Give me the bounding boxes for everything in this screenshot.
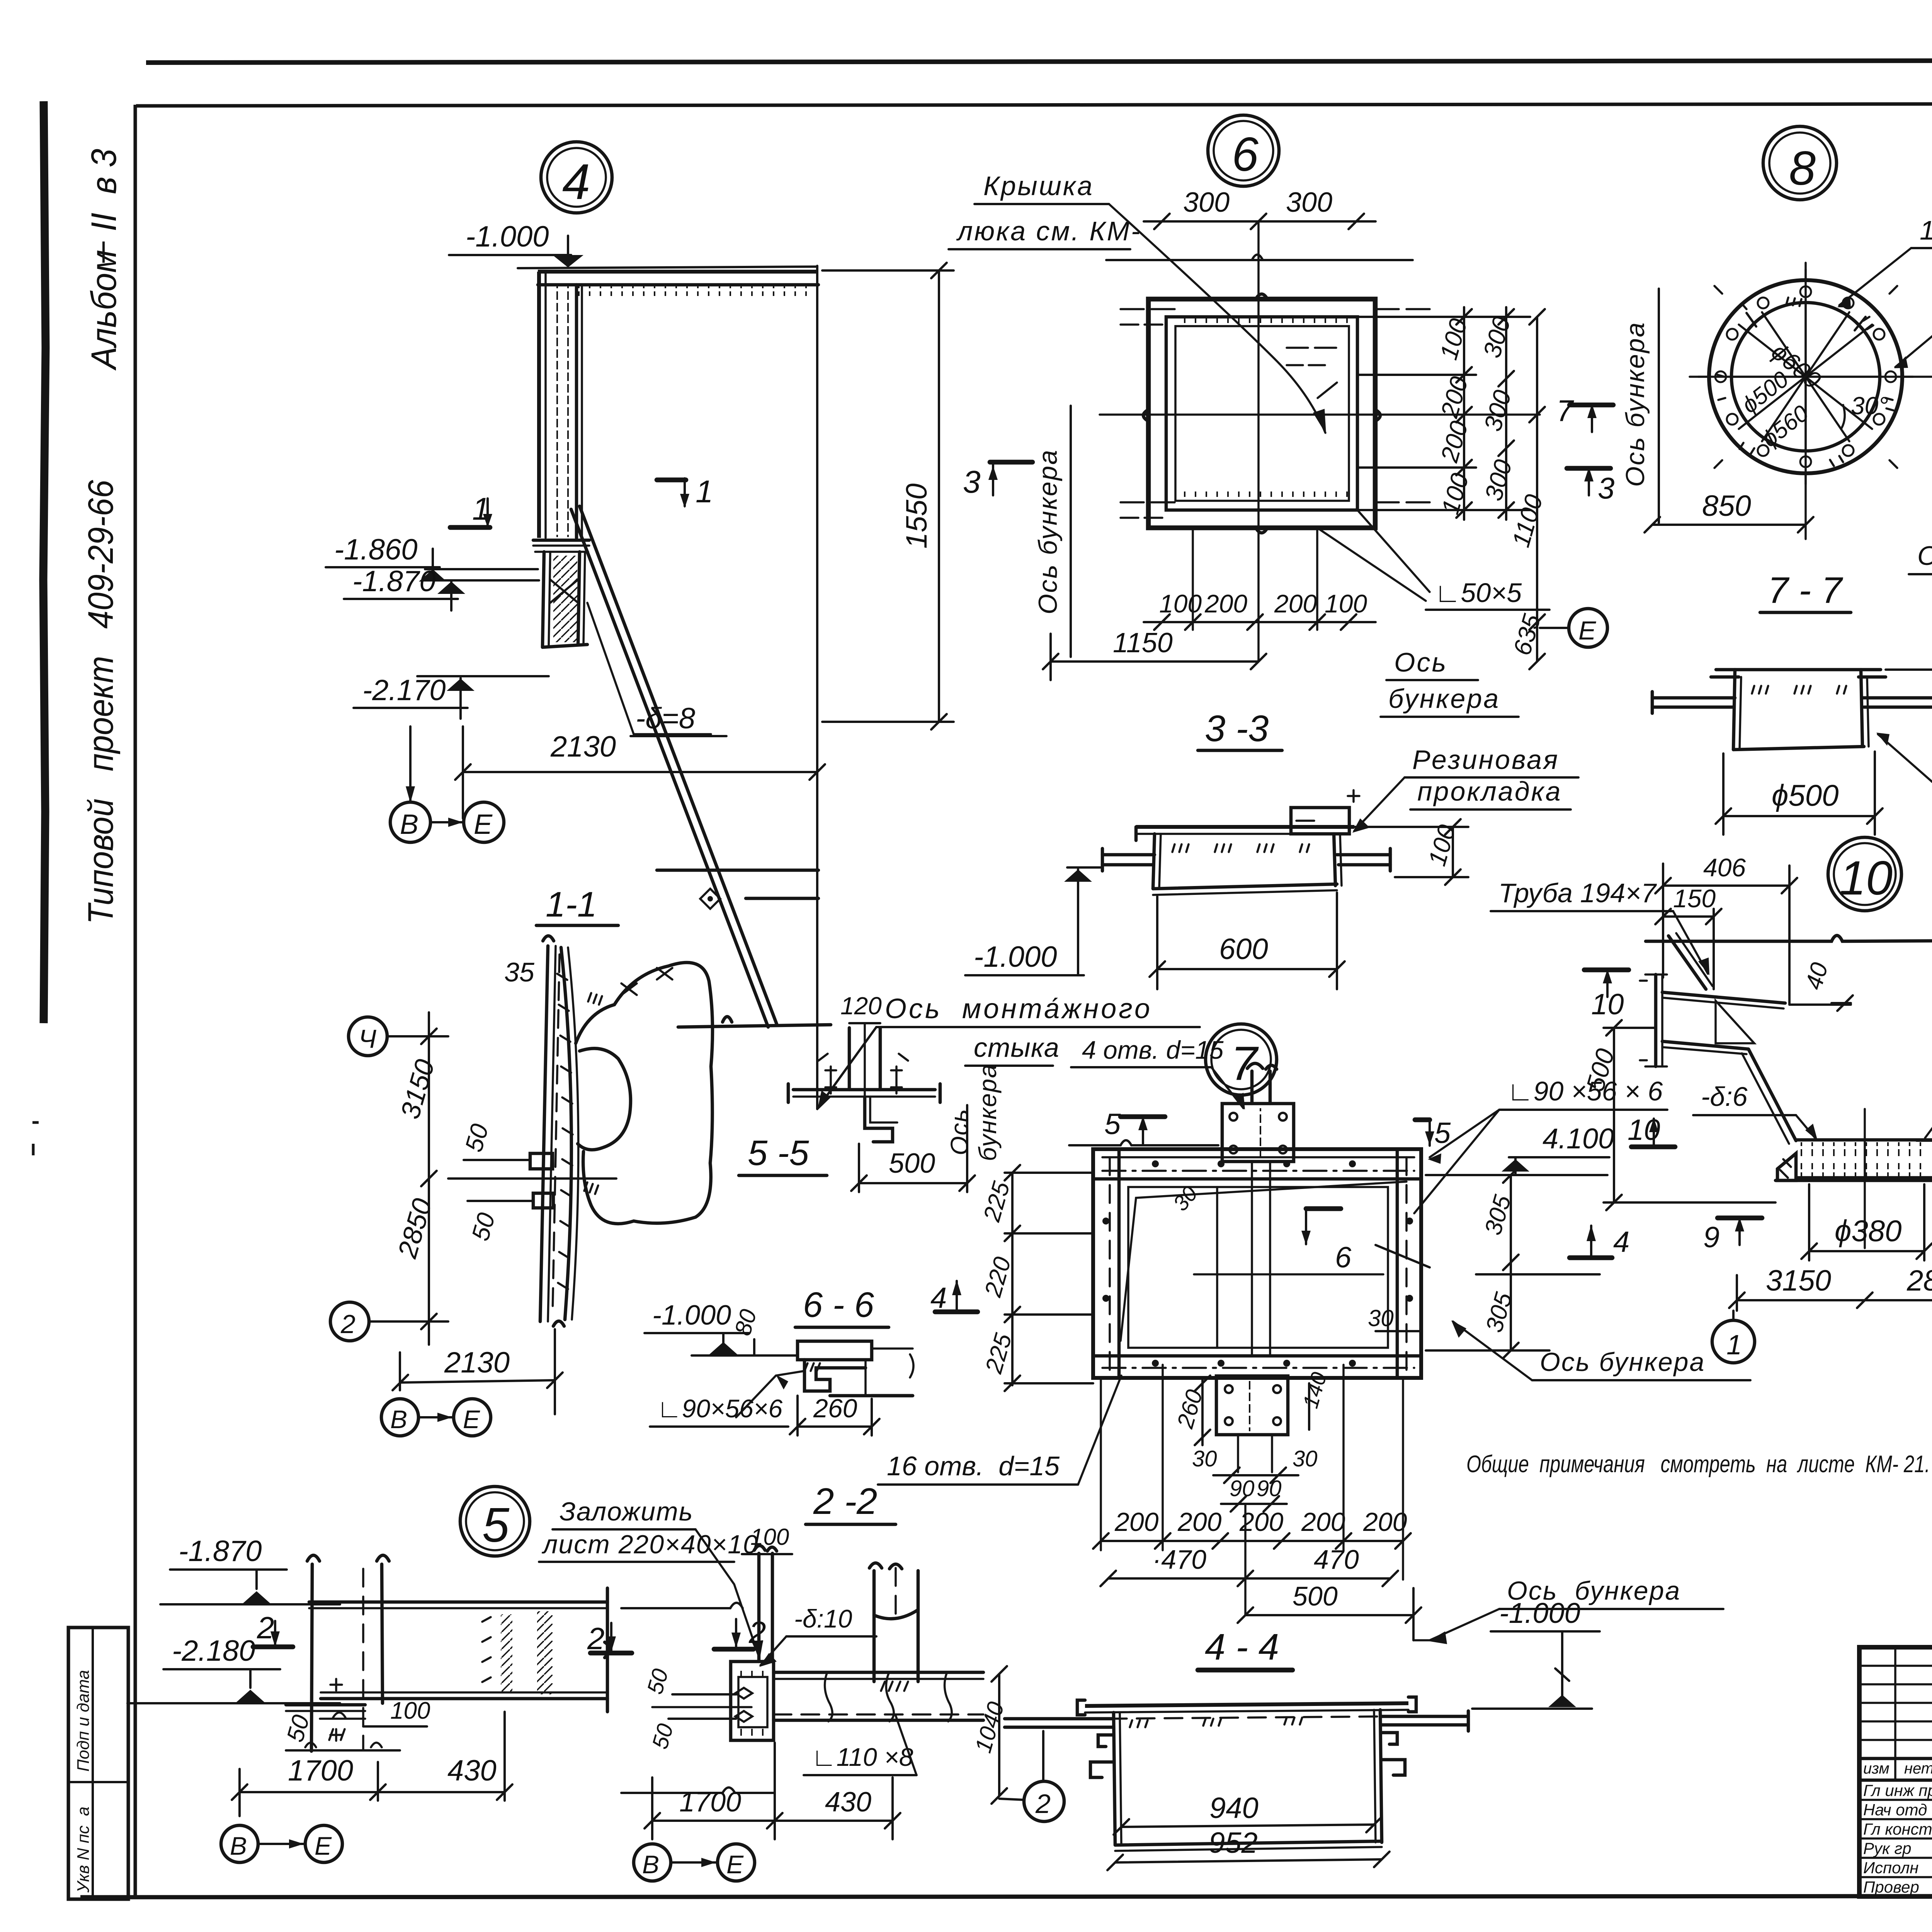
svg-text:2: 2 [257,1611,274,1645]
svg-text:·470: ·470 [1152,1544,1206,1575]
body walls [1114,1713,1115,1845]
svg-text:30: 30 [1368,1305,1394,1331]
svg-text:люка см. КМ-: люка см. КМ- [956,216,1141,246]
svg-text:9: 9 [1703,1221,1719,1254]
bolt dots [1102,1160,1413,1367]
svg-text:бункера: бункера [1388,684,1500,714]
dashed hidden lines outside [1121,309,1175,325]
svg-text:5: 5 [1104,1108,1121,1141]
svg-text:Ось бункера: Ось бункера [1033,449,1063,614]
svg-text:300: 300 [1286,187,1332,218]
column dividers [1894,1647,1896,1780]
svg-text:16 отв. d=15: 16 отв. d=15 [887,1451,1060,1481]
dim 80 [753,1339,755,1355]
svg-text:Исполн: Исполн [1863,1859,1918,1877]
svg-text:2850: 2850 [1906,1264,1932,1297]
section 3 mark right [1567,466,1611,471]
svg-text:5: 5 [482,1498,510,1552]
outer frame rectangle [1093,1149,1421,1378]
cross assembly [793,1088,935,1092]
svg-text:-δ=8: -δ=8 [636,702,695,735]
svg-text:2130: 2130 [550,730,616,763]
svg-text:30°: 30° [1851,392,1888,420]
top channel band [1093,1177,1421,1181]
svg-text:2130: 2130 [444,1346,510,1379]
svg-text:2: 2 [587,1621,605,1656]
svg-text:∟110 ×8: ∟110 ×8 [811,1743,913,1771]
hatch in wall band [557,974,573,1289]
svg-text:4 - 4: 4 - 4 [1205,1626,1279,1668]
vertical dim chain 3150/2850 [428,1012,430,1345]
node circle 10 [1828,837,1901,911]
extension to bubble [1042,1731,1044,1781]
bottom grid bubbles [221,1825,258,1862]
svg-text:Е: Е [1578,616,1596,645]
svg-text:ɸ500: ɸ500 [1772,778,1839,812]
svg-text:100: 100 [1325,589,1367,618]
dims 50 50 [464,1159,530,1161]
svg-text:Ось бункера: Ось бункера [1621,321,1650,487]
svg-text:6: 6 [1335,1241,1352,1274]
svg-text:Е: Е [474,809,493,840]
inner rect [1128,1187,1388,1348]
svg-text:-1.000: -1.000 [1499,1597,1580,1629]
weld ticks [1752,686,1846,694]
svg-text:-1.000: -1.000 [652,1300,731,1331]
svg-text:Укв N пс а: Укв N пс а [74,1806,93,1893]
top roof beam [538,270,818,274]
column base plates [286,1703,365,1707]
bolts left right [825,1066,902,1094]
svg-text:Е: Е [463,1405,480,1434]
weld tick rows inside [1172,844,1309,852]
svg-text:5 -5: 5 -5 [748,1133,809,1173]
brace label leader [587,603,711,734]
svg-text:Труба 194×7: Труба 194×7 [1498,878,1657,908]
right pipe [1862,696,1932,700]
axis vertical [1658,289,1660,523]
x marks [621,968,672,995]
curved wall band [540,946,548,1321]
top plate with pipe [1222,1104,1294,1162]
grid bubble B [390,802,430,842]
top border line upper [146,60,1932,63]
svg-text:406: 406 [1703,853,1746,882]
dashed midline [1109,1716,1387,1719]
svg-text:Ось: Ось [1394,647,1447,677]
edge notches [1143,294,1380,533]
svg-text:∟90×56×6: ∟90×56×6 [657,1394,783,1423]
top flange [1085,1703,1408,1706]
svg-text:200: 200 [1204,589,1247,618]
svg-text:ɸ380: ɸ380 [1835,1214,1902,1248]
bottom frame border [80,1896,1932,1897]
svg-text:3: 3 [963,464,981,500]
svg-text:Ось бункера: Ось бункера [1917,541,1932,571]
svg-text:200: 200 [1301,1507,1345,1537]
section 5 marks top [1121,1114,1165,1119]
horizontal line through 6 [1194,1273,1383,1276]
tank top flange [1716,668,1881,672]
left paper edge mark [43,101,46,1023]
big diagonal [1121,1182,1406,1341]
svg-text:В: В [400,809,418,840]
svg-text:изм: изм [1863,1760,1889,1777]
svg-text:Е: Е [315,1832,332,1860]
splice plates [533,539,589,542]
svg-text:150: 150 [1673,884,1716,913]
svg-text:600: 600 [1219,933,1268,966]
svg-text:200: 200 [1363,1507,1407,1537]
chute pipe diagonal [1668,936,1706,989]
spokes [1730,301,1881,452]
inner square [1166,317,1357,510]
svg-text:6: 6 [1232,128,1259,181]
svg-text:3150: 3150 [1766,1264,1831,1297]
svg-text:260: 260 [813,1394,857,1423]
long extension line [1106,259,1413,261]
second column [872,1571,876,1682]
channel below [865,1097,893,1142]
svg-text:-1.870: -1.870 [179,1535,262,1568]
outer plan square [1148,299,1375,528]
svg-text:8: 8 [1789,142,1816,195]
left pipe [1652,696,1735,700]
node circle 8 [1763,126,1837,200]
svg-text:Заложить: Заложить [560,1497,693,1526]
centerlines [1257,222,1260,662]
hatch ticks along inner frame [1175,317,1349,326]
svg-text:1-1: 1-1 [546,885,597,924]
bottom channel band [1093,1354,1421,1358]
stamp outline [1859,1647,1932,1896]
svg-text:100: 100 [750,1524,789,1550]
chute top lines [1662,992,1785,1003]
svg-text:Нач отд: Нач отд [1863,1801,1927,1819]
B E bubbles [634,1844,671,1881]
svg-text:Гл инж пр: Гл инж пр [1863,1781,1932,1799]
right dims 305/305 [1510,1175,1512,1350]
bottom plate with pipe [1216,1376,1288,1435]
svg-text:500: 500 [1293,1581,1338,1611]
small weld ticks ring [1718,298,1893,466]
svg-text:470: 470 [1314,1544,1359,1575]
svg-text:2: 2 [340,1310,355,1339]
top border line lower [136,103,1932,106]
svg-text:1550: 1550 [900,483,933,549]
beam right [774,1671,983,1674]
svg-text:200: 200 [1177,1507,1222,1537]
dim 100 right [1452,827,1454,877]
section 10 marks [1584,968,1629,973]
diameter arrow ticks [1747,313,1866,330]
node circle 6 [1208,115,1279,186]
wall lower portion [543,552,544,647]
svg-text:100: 100 [390,1697,430,1724]
channels at sides [1090,1735,1114,1777]
svg-text:Гл конст: Гл конст [1863,1820,1932,1838]
throat neck hatched band [1796,1138,1932,1142]
dim line under 2130 to B bubble [409,726,412,802]
svg-text:12 отв. d=12: 12 отв. d=12 [1920,215,1932,245]
channel section [798,1341,872,1360]
beam right [309,1600,607,1604]
svg-text:430: 430 [825,1787,871,1818]
dims 50 50 rotated [672,1693,736,1696]
svg-text:лист 220×40×10: лист 220×40×10 [541,1530,759,1559]
small splice plates mid [530,1153,553,1169]
svg-text:6 - 6: 6 - 6 [803,1285,874,1325]
right pipe [1382,1715,1468,1718]
svg-text:7 - 7: 7 - 7 [1768,570,1844,611]
left frame border [134,105,137,1897]
right dim chain 1 [1463,307,1465,520]
svg-text:5: 5 [1434,1117,1451,1150]
svg-text:30: 30 [1192,1446,1217,1471]
column shaft [311,1564,312,1751]
svg-text:нет: нет [1904,1760,1932,1777]
left slope to throat [1748,1049,1796,1141]
diagonal brace [571,509,768,1027]
hatched gusset [1716,1001,1754,1043]
svg-text:-1.000: -1.000 [466,220,549,253]
svg-text:2 -2: 2 -2 [813,1481,877,1522]
svg-text:1700: 1700 [679,1787,741,1818]
svg-text:∟50×5: ∟50×5 [1434,578,1522,608]
svg-text:1700: 1700 [288,1754,353,1787]
svg-text:2: 2 [1035,1789,1051,1819]
section 7 mark right [1570,403,1613,408]
right dim 1100 [1536,317,1538,662]
node circle 5 [460,1486,530,1556]
svg-text:4: 4 [562,153,590,210]
grid bubble E [464,802,504,842]
svg-text:В: В [230,1832,247,1860]
svg-text:-δ:6: -δ:6 [1701,1082,1748,1112]
tank body [1733,670,1735,750]
svg-text:Крышка: Крышка [983,171,1094,201]
svg-text:3: 3 [1598,471,1614,505]
E bubble right [1569,609,1607,647]
centerline [1864,1109,1866,1248]
flared feet [1777,1153,1796,1180]
svg-text:952: 952 [1209,1827,1258,1859]
column base plate region [731,1662,774,1740]
svg-text:200: 200 [1274,589,1317,618]
svg-text:35: 35 [504,957,535,987]
tank top flange [1136,825,1354,829]
node circle 4 [541,142,612,213]
svg-text:Ось бункера: Ось бункера [1540,1347,1705,1377]
svg-text:300: 300 [1183,187,1230,218]
svg-text:4.100: 4.100 [1543,1122,1614,1155]
svg-text:4 отв. d=15: 4 отв. d=15 [1082,1036,1224,1064]
svg-text:-2.180: -2.180 [172,1634,255,1667]
svg-text:200: 200 [1114,1507,1159,1537]
flange outer circle [1709,280,1902,473]
names rows [1859,1799,1932,1801]
chute bottom [1662,1041,1748,1049]
left pipe [1005,1717,1114,1721]
wavy cut lines [621,1603,743,1608]
svg-text:-δ:10: -δ:10 [794,1604,852,1633]
centerlines [1804,263,1807,539]
svg-text:940: 940 [1209,1792,1259,1825]
section 6 marks [1305,1209,1307,1244]
svg-text:Ось монта́жного: Ось монта́жного [885,993,1152,1024]
svg-text:Ось: Ось [946,1109,973,1155]
svg-text:стыка: стыка [974,1032,1060,1063]
svg-text:Е: Е [726,1850,744,1879]
svg-text:500: 500 [889,1148,935,1179]
svg-text:бункера: бункера [974,1063,1002,1161]
lower platform lines [657,869,818,872]
bolt diamond [700,889,720,909]
grid bubbles 1 2 [1712,1320,1755,1363]
svg-text:В: В [642,1850,659,1879]
leader diagonal [1109,204,1325,433]
left/right bands [1117,1149,1121,1378]
bolt holes [1715,286,1896,467]
svg-text:10: 10 [1591,988,1624,1021]
svg-text:Общие примечания смотреть: Общие примечания смотреть на листе КМ- 2… [1466,1451,1930,1478]
svg-text:850: 850 [1702,490,1751,522]
svg-text:100: 100 [1159,589,1202,618]
svg-text:120: 120 [840,992,882,1020]
svg-text:Провер: Провер [1863,1878,1919,1896]
centerline of splice [816,266,818,1109]
svg-text:∟90 ×56 × 6: ∟90 ×56 × 6 [1507,1076,1663,1106]
wall upper portion [537,272,541,538]
svg-text:30: 30 [1293,1446,1318,1471]
flange inner circle [1731,303,1880,451]
tank body [1153,834,1155,889]
channel hatch detail inside beam [501,1614,512,1692]
dashed centerline [553,954,560,1314]
svg-text:10: 10 [1839,852,1893,905]
left dim chain 225/220/225 [1011,1173,1014,1385]
right dim chain 2 [1505,307,1507,520]
svg-text:430: 430 [447,1754,497,1787]
left pipe [1102,853,1155,857]
dim 1550 vertical [938,270,940,722]
svg-text:Типовой проект 409-29-66: Типовой проект 409-29-66 [81,480,121,924]
dim 500 left [1613,1028,1615,1202]
svg-text:-1.000: -1.000 [974,940,1057,973]
center pipe verticals [1251,1162,1253,1356]
bolt circle ticks [1698,269,1913,484]
svg-text:прокладка: прокладка [1417,776,1562,806]
svg-text:90: 90 [1230,1476,1255,1501]
bottom line [1776,1179,1932,1182]
svg-text:Резиновая: Резиновая [1412,745,1559,775]
vertical member above [757,1553,761,1662]
svg-text:-1.870: -1.870 [352,565,436,598]
svg-text:-2.170: -2.170 [362,674,446,707]
node circle 7 [1206,1024,1277,1095]
weld ticks [588,993,602,1005]
cross ties on lower wall [550,580,578,603]
svg-text:Ч: Ч [359,1024,376,1054]
top line with break [1646,935,1932,941]
left grid bubbles [349,1017,387,1056]
2 bubble [1024,1781,1064,1821]
bottom grid bubbles B E [381,1399,418,1436]
weld ticks under flange [1130,1718,1302,1727]
cloud blob right [576,963,713,1224]
svg-text:3 -3: 3 -3 [1205,708,1269,749]
svg-text:7: 7 [1556,394,1574,428]
svg-text:Рук гр: Рук гр [1863,1839,1912,1857]
right pipe [1337,853,1390,857]
svg-text:1: 1 [1726,1330,1742,1361]
section 9 marks [1718,1216,1762,1221]
svg-text:4: 4 [1613,1226,1629,1259]
gasket raised box [1291,808,1349,834]
arrow between bubbles [430,821,464,823]
10 40 dims [998,1674,1000,1796]
svg-text:1: 1 [696,474,713,509]
GOST left column boxes [68,1628,128,1899]
vertical pipe above [848,1028,851,1090]
svg-text:Подп и дата: Подп и дата [74,1670,93,1772]
svg-text:В: В [390,1405,407,1434]
axis vertical text left [1070,406,1072,657]
svg-text:-1.860: -1.860 [334,533,418,566]
svg-text:1150: 1150 [1113,628,1173,658]
left chute: flange [1654,975,1658,1066]
